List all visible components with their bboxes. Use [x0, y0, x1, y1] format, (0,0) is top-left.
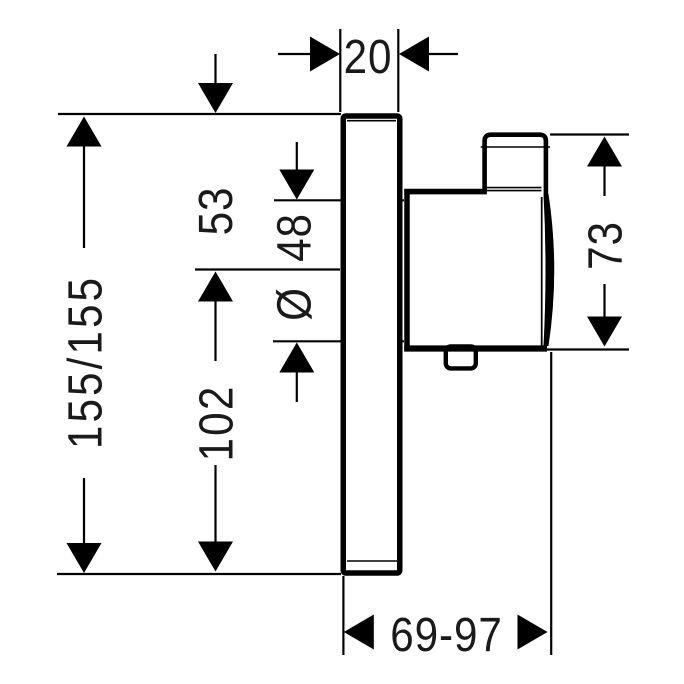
dimension 69-97 left arrow — [344, 615, 374, 650]
svg-text:69-97: 69-97 — [390, 607, 502, 661]
wire extension line 69-97 right vertical — [550, 352, 552, 655]
svg-text:73: 73 — [578, 221, 632, 270]
dimension diameter-48 top arrow (down) — [279, 142, 314, 200]
dimension 53 top arrow (down, above plate top line) — [198, 54, 233, 113]
handle base seam line 2 — [487, 190, 542, 192]
dimension 155/155 bottom arrow — [67, 478, 102, 573]
stop button tab at body bottom — [446, 346, 476, 368]
dimension 69-97 right arrow — [518, 615, 548, 650]
svg-text:Ø 48: Ø 48 — [267, 213, 321, 321]
wire extension line 20-right vertical — [397, 29, 399, 112]
wire extension line top-left (y=114) — [58, 113, 341, 115]
wire extension line 73-top — [550, 133, 629, 135]
handle knob outline — [485, 135, 546, 197]
dimension diameter-48 bottom arrow (up) — [279, 343, 314, 403]
plate seam line top — [347, 120, 396, 122]
dimension 102 top arrow (up, below center line) — [198, 272, 233, 362]
dimension 73 bottom arrow (down) — [587, 284, 622, 347]
valve body bottom edge — [404, 345, 547, 351]
plate seam line bottom — [347, 560, 399, 562]
wire extension line bottom-left (y=574) — [57, 573, 341, 575]
wire center line (53/102 boundary, y=269.5) — [195, 268, 340, 270]
handle base seam line 1 — [487, 187, 542, 189]
dimension 73 top arrow (up) — [587, 137, 622, 197]
valve body top edge — [404, 189, 487, 195]
valve body right bulged edge — [544, 194, 555, 346]
escutcheon plate (side view rectangle) — [343, 116, 400, 573]
dimension 102 bottom arrow (down) — [198, 465, 233, 572]
wire diameter-48 bottom line — [273, 340, 404, 342]
valve body right inner line — [541, 197, 543, 346]
dimension 20 right arrow — [399, 37, 458, 72]
svg-text:53: 53 — [188, 187, 242, 236]
wire extension line 69-97 left vertical — [342, 576, 344, 655]
svg-text:155/155: 155/155 — [58, 275, 112, 449]
wire extension line 20-left vertical — [339, 29, 341, 112]
wire diameter-48 top line — [274, 199, 404, 201]
wire extension line 73-bottom — [545, 348, 629, 350]
dimension 155/155 top arrow — [67, 117, 102, 249]
svg-text:102: 102 — [189, 384, 243, 461]
svg-text:20: 20 — [344, 29, 393, 83]
valve body left edge — [404, 189, 410, 352]
dimension 20 left arrow — [278, 37, 340, 72]
handle cap seam line — [481, 146, 550, 148]
